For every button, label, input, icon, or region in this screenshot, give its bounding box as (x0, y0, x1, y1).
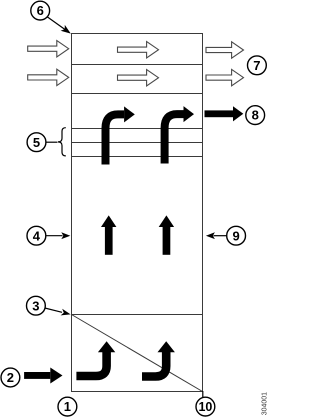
callout 6 leader arrow (48, 17, 71, 34)
hollow inlet arrow left row2 (28, 69, 69, 85)
black curved intake arrow bottom-right (142, 341, 175, 376)
svg-text:3: 3 (32, 298, 39, 313)
black curved intake arrow bottom-left (76, 341, 115, 376)
diagonal air baffle (72, 315, 203, 392)
hollow outlet arrow right row2 (206, 69, 244, 85)
callout circle 8 (246, 106, 265, 125)
hollow arrow inside row1 (118, 42, 159, 58)
hollow arrow inside row2 (118, 70, 159, 86)
chassis outline (72, 34, 203, 392)
black curved exhaust arrow left (fan region) (106, 106, 135, 164)
brace for callout 5 (58, 128, 66, 156)
callout 5 leader line (46, 141, 58, 143)
fan tray line y=156 (72, 156, 202, 158)
callout 10 leader line (202, 391, 204, 397)
fan tray line y=128 (72, 128, 202, 130)
svg-text:9: 9 (232, 228, 239, 243)
callout circle 5 (27, 133, 46, 152)
callout circle 1 (58, 397, 77, 416)
callout circle 4 (27, 226, 46, 245)
slot divider line y=93 (72, 93, 202, 95)
slot divider line y=64 (72, 64, 202, 66)
callout circle 6 (31, 1, 50, 20)
vertical airflow arrow right (card cage) (159, 215, 174, 254)
callout circle 9 (227, 226, 246, 245)
callout circle 7 (248, 56, 267, 75)
svg-text:2: 2 (7, 370, 14, 385)
callout 4 leader arrow (46, 232, 71, 239)
black exhaust arrow to callout 8 (205, 106, 244, 121)
svg-text:1: 1 (64, 399, 71, 414)
svg-text:8: 8 (252, 108, 259, 123)
black curved exhaust arrow right (fan region) (165, 106, 194, 163)
bottom section divider y=314.5 (72, 314, 202, 316)
svg-text:304001: 304001 (262, 392, 269, 415)
callout 9 leader arrow (206, 232, 227, 239)
fan tray line y=142 (72, 142, 202, 144)
callout circle 2 (1, 368, 20, 387)
callout 3 leader arrow (45, 308, 71, 315)
hollow inlet arrow left row1 (28, 41, 69, 57)
svg-text:5: 5 (33, 135, 40, 150)
svg-text:7: 7 (253, 58, 260, 73)
svg-text:6: 6 (37, 3, 44, 18)
callout circle 3 (27, 296, 46, 315)
callout circle 10 (196, 397, 215, 416)
vertical airflow arrow left (card cage) (101, 215, 116, 254)
black intake arrow from callout 2 (24, 368, 62, 384)
hollow outlet arrow right row1 (206, 42, 244, 58)
svg-text:4: 4 (33, 228, 41, 243)
svg-text:10: 10 (198, 400, 212, 414)
